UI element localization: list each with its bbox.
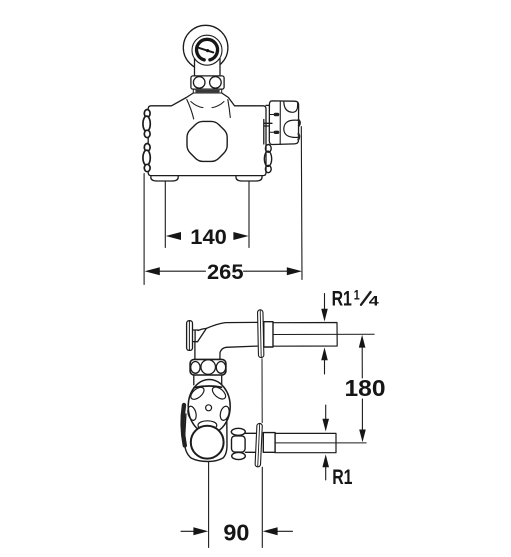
knob face dividing line (279, 101, 281, 144)
left mounting foot (151, 176, 178, 181)
knob top-right grip lobe (284, 102, 298, 113)
bottom pipe collar nut (263, 433, 275, 453)
gauge needle hub (206, 49, 209, 52)
svg-text:265: 265 (207, 260, 244, 284)
knob set screw upper (274, 113, 280, 116)
extension line from top escutcheon down (90 right) (261, 359, 263, 423)
extension line 90 right lower (261, 467, 263, 547)
dimension 90 right arrow (points left) (278, 530, 293, 532)
dimension 180 vertical line upper (361, 348, 363, 379)
dimension 265 line left segment (157, 270, 206, 272)
adapter flange behind knob (264, 105, 272, 144)
flange stem (193, 330, 199, 342)
extension line right foot (140) (248, 182, 250, 248)
gauge column bracket (occludes bezel bottom) (195, 57, 221, 77)
elbow body (195, 322, 257, 360)
R1 leader upper arrow (down) (325, 405, 327, 420)
left lower inlet nipple (hex profile) (143, 144, 150, 172)
top pipe centre line (273, 333, 374, 335)
housing cup around cap (184, 414, 227, 462)
extension line left foot (140) (164, 182, 166, 248)
svg-text:4: 4 (369, 293, 380, 308)
valve body outline (148, 93, 266, 176)
handle center pin (206, 405, 212, 411)
wall flange (left) (187, 321, 193, 351)
pressure gauge outer bezel circle (183, 25, 228, 70)
gauge needle (199, 48, 213, 53)
body shoulder right arc (212, 102, 224, 108)
dimension 265 line right segment (244, 270, 291, 272)
knob collar edge (194, 386, 222, 388)
dimension 180 lower arrow (down) (359, 430, 366, 443)
R1 leader lower arrow (up) (325, 467, 327, 480)
lobed handle (side view) (188, 380, 230, 434)
wall flange inner line (188, 321, 190, 350)
R1 1/4 leader lower arrow (up) (324, 360, 326, 374)
bottom escutcheon (255, 423, 262, 467)
cap circle (191, 426, 224, 459)
extension line 90 left (from cap bottom) (208, 462, 210, 548)
svg-text:1: 1 (354, 287, 360, 302)
handle lobe left (186, 405, 197, 421)
left union nut circle (193, 77, 205, 89)
knurled ring band (193, 89, 221, 93)
gauge dial rim circle (192, 35, 222, 65)
control knob body (269, 101, 298, 145)
right union nut circle (210, 77, 222, 89)
handle lobe right (219, 405, 231, 421)
dimension 140 right arrow (233, 232, 248, 240)
dimension 265 right arrow (287, 267, 302, 275)
mounting clamp arc (dark) (183, 405, 185, 446)
knob set screw lower (274, 131, 280, 134)
svg-text:R1: R1 (332, 287, 353, 310)
neck from nut to knob (194, 375, 222, 385)
left upper inlet nipple (hex profile) (143, 110, 150, 138)
knob right edge mark lower (298, 134, 299, 140)
extension line right knob (265) (300, 127, 303, 280)
dimension 180 vertical line lower (361, 399, 363, 430)
top pipe collar nut (264, 322, 273, 347)
right lower outlet nipple (hex profile) (264, 145, 271, 173)
knob right edge mark upper (299, 120, 300, 126)
body neck left fillet curve (187, 100, 194, 120)
body shoulder left arc (191, 102, 203, 108)
svg-text:90: 90 (223, 520, 249, 546)
dimension 180 upper arrow (up) (359, 335, 366, 348)
dimension 265 left arrow (145, 267, 160, 275)
handle lobe top-left (189, 385, 206, 402)
extension line left (265) (143, 174, 145, 285)
top supply pipe (273, 323, 337, 347)
svg-text:R1: R1 (332, 466, 353, 489)
union nut on valve top (190, 359, 226, 375)
body neck right fillet curve (228, 100, 231, 118)
knob right grip lobe (284, 120, 298, 137)
svg-text:140: 140 (190, 225, 227, 249)
dimension 140 left arrow (166, 232, 181, 240)
bottom supply pipe (275, 433, 336, 452)
handle lobe top-right (210, 385, 227, 402)
R1 1/4 leader upper arrow (down) (324, 294, 326, 310)
central port octagon (187, 121, 227, 161)
gauge dial black ring (open at bottom) (197, 39, 218, 60)
dimension 90 left arrow (points right) (181, 530, 194, 532)
bottom pipe centre line (275, 442, 366, 444)
twin union-nut block below gauge (191, 76, 224, 89)
pipe stub to escutcheon (bottom) (245, 433, 256, 452)
right mounting foot (236, 176, 262, 181)
svg-text:180: 180 (345, 375, 386, 401)
top escutcheon (258, 310, 264, 358)
handle lobe bottom (198, 421, 217, 430)
outlet connector nut (stacked facets) (231, 428, 245, 459)
